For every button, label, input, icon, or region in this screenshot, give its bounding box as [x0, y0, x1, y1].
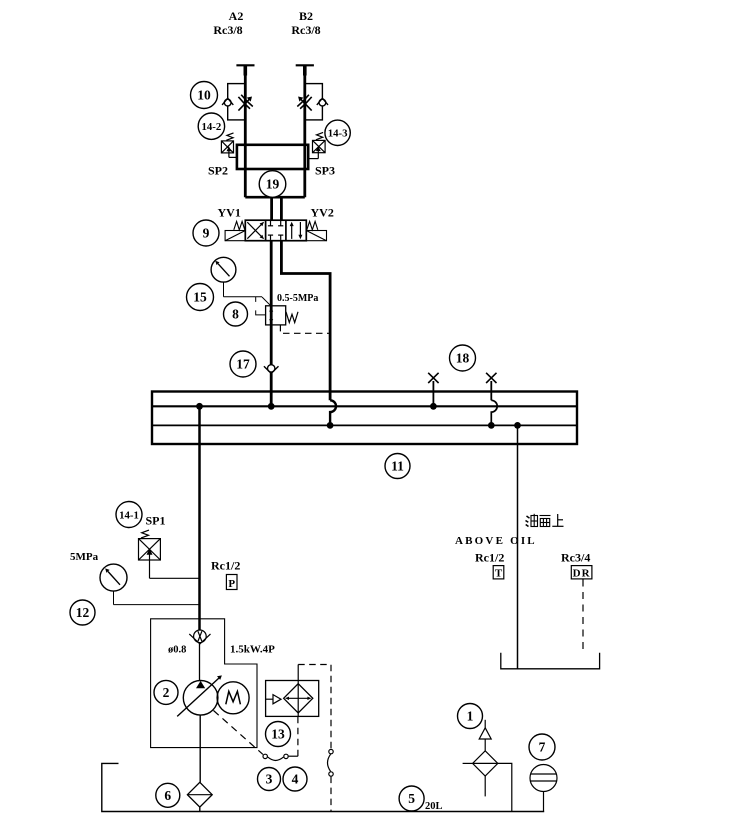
oil cooler U13	[266, 681, 319, 717]
balloon 1	[458, 704, 483, 729]
manifold lower channel	[152, 424, 577, 426]
svg-text:DR: DR	[573, 568, 591, 580]
valve8 left pilot stub	[256, 310, 266, 315]
port DR box	[571, 566, 592, 580]
port T box	[493, 566, 504, 580]
svg-text:1: 1	[467, 709, 474, 724]
wire B stub block19 to valve9	[280, 197, 283, 220]
svg-text:11: 11	[391, 459, 404, 474]
svg-text:12: 12	[76, 605, 90, 620]
electric motor M	[217, 682, 249, 714]
svg-text:5MPa: 5MPa	[70, 551, 99, 563]
balloon 10	[191, 82, 218, 109]
directional valve U9 body	[245, 220, 306, 241]
wire DR drain dashed	[582, 580, 584, 654]
solenoid YV1	[225, 231, 245, 241]
wire T return line	[517, 425, 519, 668]
valve sub-plate (wide rect)	[237, 145, 308, 169]
balloon 5	[399, 786, 424, 811]
wire test point right hop to lower channel	[491, 400, 497, 425]
svg-text:Rc1/2: Rc1/2	[475, 551, 504, 565]
balloon 18	[450, 345, 476, 371]
balloon 2	[154, 680, 178, 704]
hose coupling cooler return	[328, 749, 334, 776]
balloon 6	[156, 783, 180, 807]
balloon 15	[187, 284, 214, 311]
node check17 junction	[268, 403, 275, 410]
node T junction	[514, 422, 521, 429]
svg-text:4: 4	[292, 772, 299, 787]
balloon 8	[224, 302, 248, 326]
port B2 label	[291, 9, 320, 37]
throttle symbol left	[238, 95, 252, 111]
return tank symbol	[501, 653, 600, 669]
svg-text:B2: B2	[299, 9, 313, 23]
svg-text:2: 2	[163, 685, 170, 700]
node test right junction	[488, 422, 495, 429]
svg-text:17: 17	[236, 357, 250, 372]
oil tank outline	[102, 763, 544, 811]
suction filter 6	[187, 782, 212, 807]
svg-text:13: 13	[271, 727, 285, 742]
svg-text:Rc1/2: Rc1/2	[211, 559, 240, 573]
port P box	[226, 575, 237, 590]
throttle-check valve body right	[305, 84, 323, 120]
wire filter to tank	[199, 807, 201, 811]
wire B line elbow valve9 to manifold	[281, 241, 330, 401]
wire pump suction	[199, 715, 201, 782]
plugged test point left (X)	[428, 373, 438, 407]
svg-text:SP2: SP2	[208, 164, 228, 178]
svg-text:20L: 20L	[425, 801, 443, 812]
balloon 4	[283, 767, 307, 791]
svg-text:A2: A2	[229, 9, 244, 23]
wire P line valve9 to manifold	[270, 241, 273, 407]
balloon 14-3	[325, 120, 350, 145]
pressure switch SP1	[139, 530, 200, 578]
svg-text:0.5-5MPa: 0.5-5MPa	[277, 293, 318, 304]
spring right valve9	[307, 221, 318, 229]
svg-text:6: 6	[164, 788, 171, 803]
balloon 11	[385, 454, 410, 479]
check valve with orifice	[189, 630, 210, 644]
wire hose to cooler dashed	[297, 716, 299, 756]
spring left valve9	[234, 221, 245, 229]
wire A2 line	[244, 65, 247, 197]
pressure gauge G12	[100, 564, 127, 591]
svg-text:8: 8	[232, 307, 239, 322]
check valve in right box	[317, 98, 328, 106]
manifold block 11	[152, 392, 577, 445]
svg-text:Rc3/4: Rc3/4	[561, 551, 590, 565]
label CJK you-mian-shang (above oil surface)	[526, 514, 564, 527]
balloon 14-2	[198, 113, 224, 139]
svg-text:SP3: SP3	[315, 164, 335, 178]
balloon 17	[230, 351, 256, 377]
svg-text:ø0.8: ø0.8	[168, 645, 186, 656]
pressure gauge G15	[211, 257, 236, 282]
check valve in left box	[222, 98, 233, 106]
port B2 symbol	[296, 64, 314, 66]
balloon 14-1	[116, 502, 142, 528]
oil level gauge 7	[530, 765, 557, 812]
wire pump drain dashed	[214, 711, 263, 755]
wire gauge15 connection	[224, 282, 271, 306]
svg-text:19: 19	[266, 177, 280, 192]
wire P stub block19 to valve9	[270, 197, 273, 220]
wire cooler vertical line	[297, 665, 299, 717]
svg-text:Rc3/8: Rc3/8	[213, 23, 242, 37]
svg-text:Rc3/8: Rc3/8	[291, 23, 320, 37]
svg-text:10: 10	[197, 88, 211, 103]
plugged test point right (X)	[486, 373, 496, 401]
port A2 symbol	[236, 64, 254, 66]
air breather 1	[463, 720, 512, 812]
solenoid YV2	[306, 231, 326, 241]
svg-text:9: 9	[203, 226, 210, 241]
balloon 13	[266, 722, 291, 747]
wire hose to bottom dashed	[330, 777, 332, 812]
throttle symbol right	[297, 95, 311, 111]
svg-text:YV2: YV2	[311, 206, 334, 220]
balloon 12	[70, 600, 95, 625]
pressure reducing valve U8	[266, 306, 286, 325]
variable pump P2	[177, 675, 222, 716]
balloon 19	[259, 171, 286, 198]
pump unit enclosure	[151, 619, 257, 748]
check valve 17	[264, 365, 279, 374]
node P junction	[196, 403, 203, 410]
balloon 9	[193, 220, 219, 246]
manifold block 19 bottom edge	[245, 196, 304, 199]
node test left junction	[430, 403, 437, 410]
pressure switch SP2	[221, 133, 237, 158]
node B line junction	[327, 422, 334, 429]
port A2 label	[213, 9, 243, 37]
hose coupling pump drain	[263, 754, 298, 760]
wire B line hop over upper channel	[330, 400, 336, 425]
valve9 center cell blocked ports	[268, 221, 283, 240]
valve9 right cell parallel arrows	[290, 222, 303, 240]
valve9 left cell crossed arrows	[247, 222, 263, 239]
wire B2 line	[303, 65, 306, 197]
svg-text:7: 7	[539, 740, 546, 755]
svg-text:3: 3	[266, 772, 273, 787]
wire P line manifold to pump	[198, 406, 201, 631]
svg-text:14-3: 14-3	[328, 128, 348, 140]
svg-text:1.5kW.4P: 1.5kW.4P	[230, 644, 275, 656]
wire cooler to tank dashed	[298, 665, 331, 750]
throttle-check valve body left	[228, 84, 246, 120]
balloon 3	[258, 768, 281, 791]
balloon 7	[529, 734, 555, 760]
svg-text:15: 15	[193, 290, 207, 305]
valve8 drain pilot dashed	[280, 325, 330, 333]
svg-text:18: 18	[456, 351, 470, 366]
svg-text:14-1: 14-1	[119, 509, 139, 521]
svg-text:ABOVE OIL: ABOVE OIL	[455, 535, 537, 547]
svg-text:P: P	[228, 578, 235, 590]
spring valve8	[286, 312, 298, 323]
pressure switch SP3	[308, 132, 325, 158]
svg-text:14-2: 14-2	[202, 121, 222, 133]
manifold upper channel	[152, 405, 577, 407]
svg-text:SP1: SP1	[146, 514, 166, 528]
svg-text:YV1: YV1	[218, 206, 241, 220]
wire gauge12 connection	[114, 591, 200, 605]
svg-text:5: 5	[408, 791, 415, 806]
svg-text:T: T	[495, 568, 503, 580]
